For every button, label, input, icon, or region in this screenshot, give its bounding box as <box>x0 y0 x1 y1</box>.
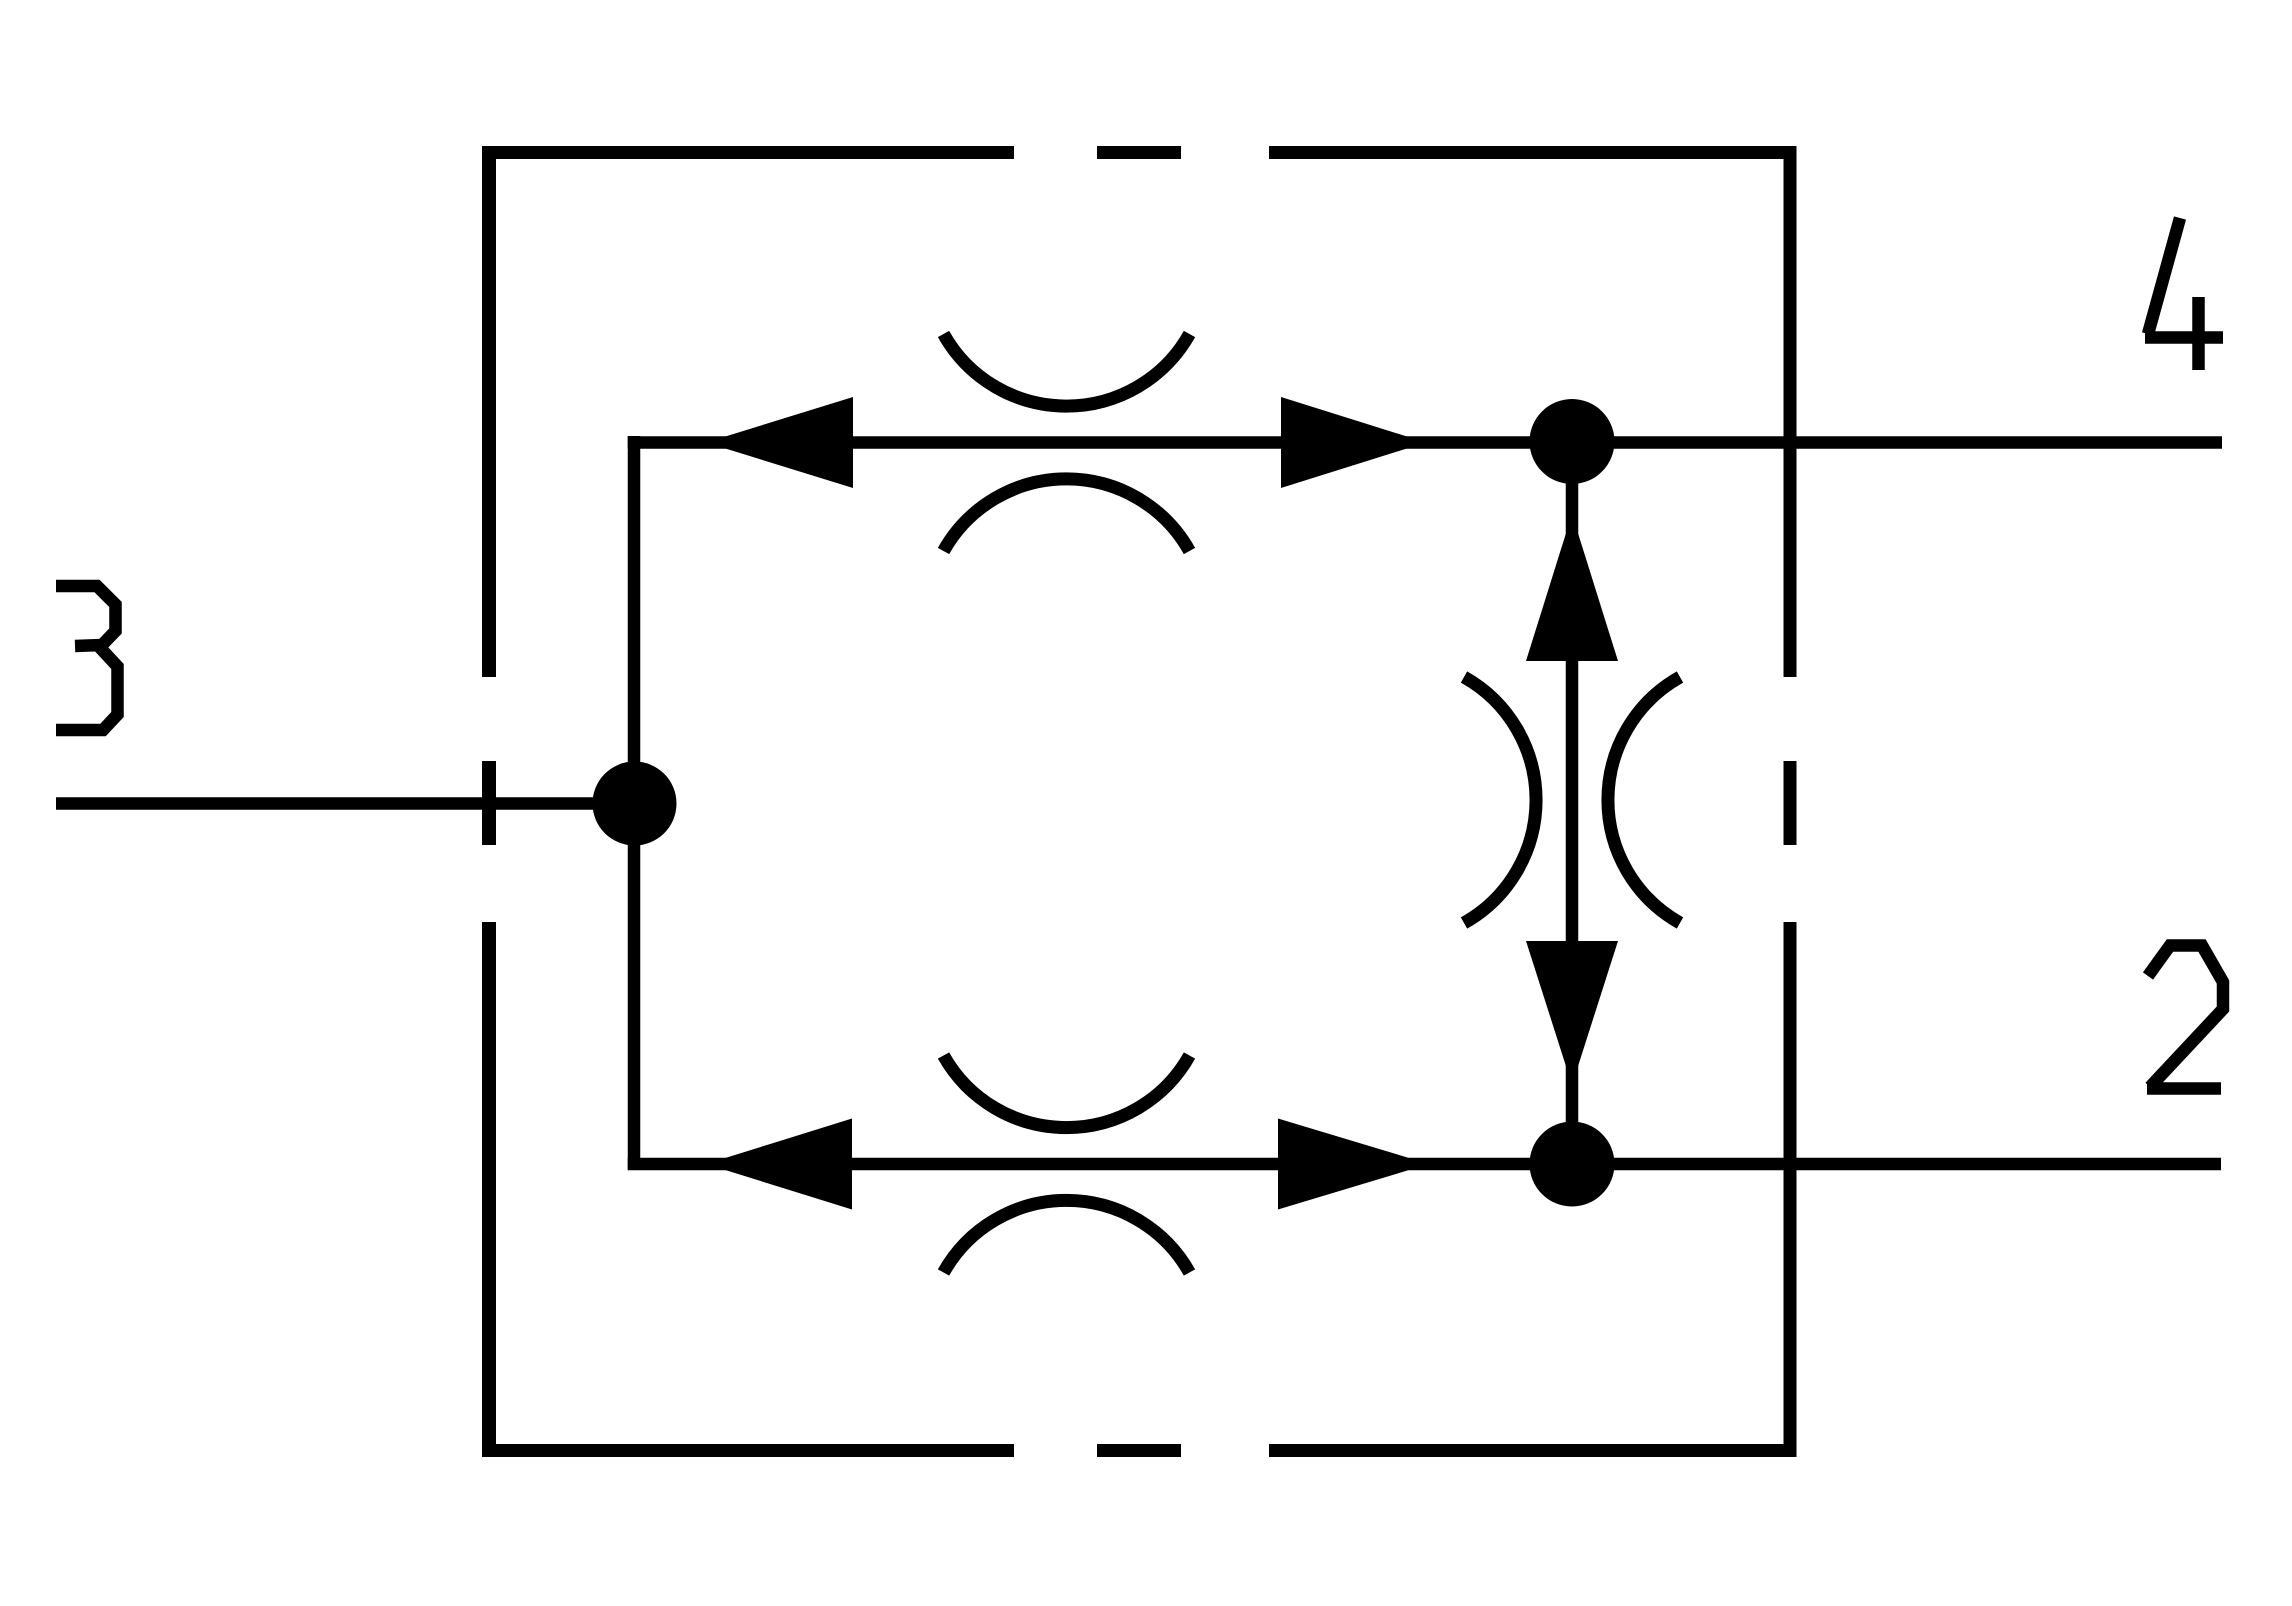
wire: left vertical branch <box>628 436 641 1170</box>
valve enclosure dashed border, bottom edge <box>483 1444 1796 1457</box>
node A: port 3 junction <box>593 762 677 846</box>
flow arrow, right branch, pointing up <box>1526 514 1618 661</box>
valve enclosure dashed border, left edge <box>482 146 496 1457</box>
port label 4 <box>2145 218 2223 370</box>
flow arrow, lower branch, pointing right <box>1278 1119 1429 1210</box>
orifice restrictor on right branch, left arc <box>1464 677 1536 923</box>
flow arrow, upper branch, pointing left <box>706 397 853 488</box>
flow arrow, right branch, pointing down <box>1526 941 1618 1085</box>
orifice restrictor on upper branch, upper arc <box>944 334 1190 406</box>
port label 3 <box>56 586 118 730</box>
node C: port 2 junction <box>1530 1122 1615 1207</box>
orifice restrictor on lower branch, upper arc <box>944 1056 1190 1128</box>
wire: port 3 lead-in line <box>56 797 634 810</box>
valve enclosure dashed border, top edge <box>483 146 1796 159</box>
valve enclosure dashed border, right edge <box>1784 146 1797 1457</box>
port label 2 <box>2147 946 2223 1089</box>
wire: upper branch and port 4 line <box>628 436 2222 449</box>
node B: port 4 junction <box>1530 399 1615 484</box>
orifice restrictor on upper branch, lower arc <box>944 479 1190 551</box>
orifice restrictor on right branch, right arc <box>1608 677 1680 923</box>
flow arrow, lower branch, pointing left <box>706 1119 852 1210</box>
wire: right vertical branch between junctions <box>1566 443 1579 1165</box>
orifice restrictor on lower branch, lower arc <box>944 1200 1190 1272</box>
wire: lower branch and port 2 line <box>628 1158 2221 1171</box>
flow arrow, upper branch, pointing right <box>1281 397 1426 488</box>
